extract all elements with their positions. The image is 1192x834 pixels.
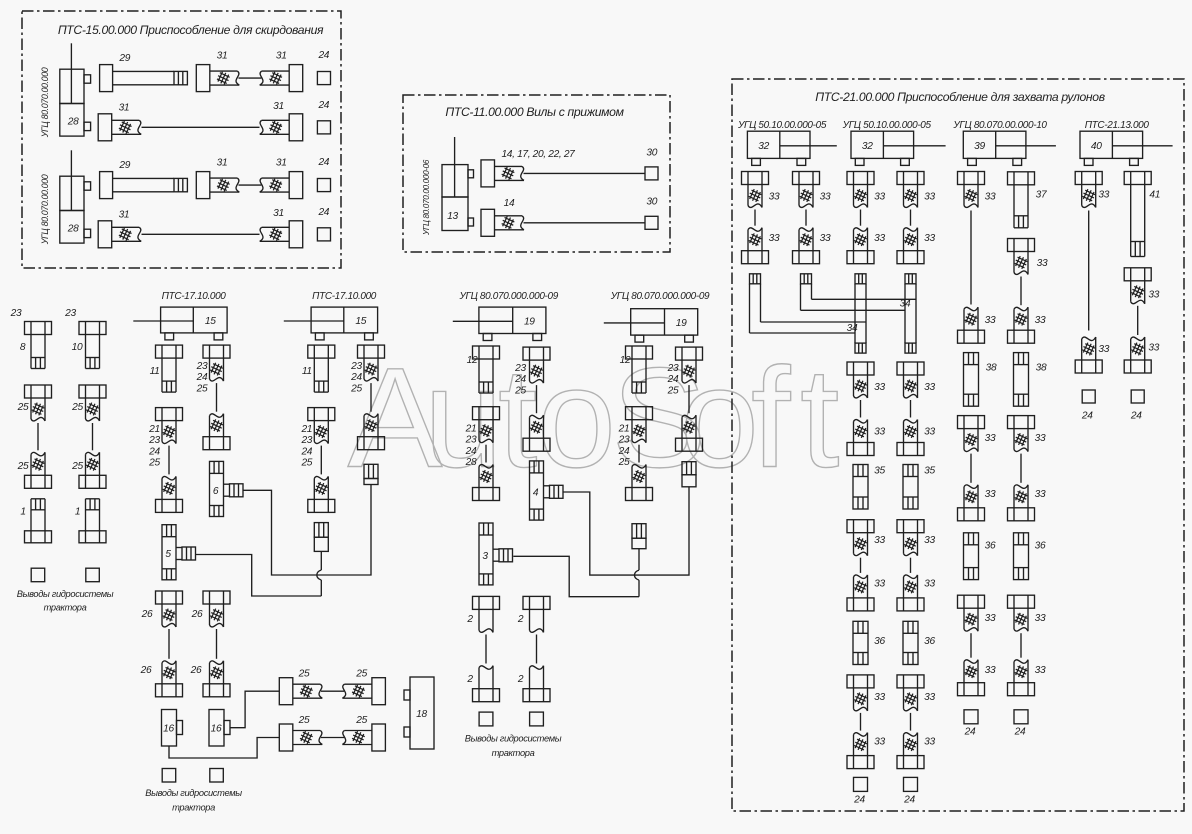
svg-text:15: 15 xyxy=(205,316,216,327)
svg-text:ПТС-21.13.000: ПТС-21.13.000 xyxy=(1085,120,1150,131)
svg-text:24: 24 xyxy=(514,374,526,385)
svg-text:25: 25 xyxy=(298,669,310,680)
svg-text:26: 26 xyxy=(141,609,153,620)
svg-text:23: 23 xyxy=(300,435,312,446)
svg-text:36: 36 xyxy=(924,636,935,647)
svg-text:31: 31 xyxy=(273,101,284,112)
svg-text:УГЦ 80.070.000.000-09: УГЦ 80.070.000.000-09 xyxy=(610,291,710,302)
svg-text:28: 28 xyxy=(465,457,477,468)
svg-text:33: 33 xyxy=(820,233,831,244)
svg-text:24: 24 xyxy=(667,374,679,385)
svg-text:33: 33 xyxy=(874,427,885,438)
svg-text:10: 10 xyxy=(72,342,83,353)
svg-text:15: 15 xyxy=(355,316,366,327)
svg-text:25: 25 xyxy=(17,461,29,472)
svg-text:33: 33 xyxy=(924,579,935,590)
svg-text:33: 33 xyxy=(874,692,885,703)
svg-text:23: 23 xyxy=(514,363,526,374)
svg-text:23: 23 xyxy=(148,435,160,446)
svg-text:25: 25 xyxy=(514,385,526,396)
svg-text:16: 16 xyxy=(163,724,174,735)
svg-text:4: 4 xyxy=(533,487,539,498)
svg-text:26: 26 xyxy=(190,665,202,676)
svg-text:33: 33 xyxy=(1098,190,1109,201)
svg-text:24: 24 xyxy=(317,207,329,218)
svg-text:33: 33 xyxy=(924,382,935,393)
svg-text:34: 34 xyxy=(847,323,858,334)
svg-text:5: 5 xyxy=(165,549,171,560)
svg-text:33: 33 xyxy=(1148,290,1159,301)
svg-text:24: 24 xyxy=(1081,411,1093,422)
svg-text:28: 28 xyxy=(67,223,79,234)
svg-text:6: 6 xyxy=(213,486,219,497)
svg-text:25: 25 xyxy=(300,458,312,469)
svg-text:24: 24 xyxy=(1130,411,1142,422)
svg-text:33: 33 xyxy=(874,535,885,546)
svg-text:33: 33 xyxy=(820,192,831,203)
svg-text:25: 25 xyxy=(667,385,679,396)
svg-text:1: 1 xyxy=(75,507,80,518)
svg-text:23: 23 xyxy=(10,308,22,319)
svg-text:33: 33 xyxy=(1035,315,1046,326)
svg-text:31: 31 xyxy=(276,51,287,62)
svg-text:39: 39 xyxy=(974,141,985,152)
svg-text:33: 33 xyxy=(924,192,935,203)
svg-text:УГЦ 50.10.00.000-05: УГЦ 50.10.00.000-05 xyxy=(737,120,827,131)
svg-text:35: 35 xyxy=(874,466,885,477)
svg-text:33: 33 xyxy=(985,433,996,444)
svg-text:16: 16 xyxy=(211,724,222,735)
svg-text:38: 38 xyxy=(1036,363,1047,374)
svg-text:33: 33 xyxy=(1035,433,1046,444)
svg-text:23: 23 xyxy=(196,361,208,372)
svg-text:23: 23 xyxy=(618,435,630,446)
svg-text:33: 33 xyxy=(924,427,935,438)
svg-text:36: 36 xyxy=(1035,541,1046,552)
svg-text:33: 33 xyxy=(1035,489,1046,500)
svg-text:13: 13 xyxy=(447,211,458,222)
svg-text:23: 23 xyxy=(465,435,477,446)
svg-text:36: 36 xyxy=(874,636,885,647)
svg-text:28: 28 xyxy=(67,116,79,127)
svg-text:8: 8 xyxy=(20,342,26,353)
svg-text:Выводы гидросистемы: Выводы гидросистемы xyxy=(145,788,242,798)
svg-text:14: 14 xyxy=(504,198,515,209)
svg-text:УГЦ 80.070.00.000-06: УГЦ 80.070.00.000-06 xyxy=(422,159,431,236)
svg-text:УГЦ 80.070.00.000: УГЦ 80.070.00.000 xyxy=(40,174,50,245)
svg-text:трактора: трактора xyxy=(172,803,215,813)
svg-text:33: 33 xyxy=(874,382,885,393)
svg-text:33: 33 xyxy=(1037,258,1048,269)
svg-text:11: 11 xyxy=(150,366,160,377)
svg-text:26: 26 xyxy=(140,665,152,676)
svg-text:ПТС-17.10.000: ПТС-17.10.000 xyxy=(312,291,377,302)
svg-text:AutoSoft: AutoSoft xyxy=(348,339,840,498)
svg-text:33: 33 xyxy=(1035,665,1046,676)
svg-text:40: 40 xyxy=(1091,141,1102,152)
svg-text:31: 31 xyxy=(217,51,228,62)
svg-text:24: 24 xyxy=(465,446,477,457)
svg-text:33: 33 xyxy=(769,192,780,203)
svg-text:26: 26 xyxy=(191,609,203,620)
svg-text:трактора: трактора xyxy=(44,603,87,613)
svg-text:35: 35 xyxy=(924,466,935,477)
svg-text:ПТС-17.10.000: ПТС-17.10.000 xyxy=(162,291,227,302)
svg-text:31: 31 xyxy=(217,158,228,169)
svg-text:29: 29 xyxy=(118,160,130,171)
svg-text:33: 33 xyxy=(985,489,996,500)
svg-text:25: 25 xyxy=(298,715,310,726)
svg-text:1: 1 xyxy=(20,507,25,518)
svg-text:31: 31 xyxy=(119,210,130,221)
svg-text:2: 2 xyxy=(517,674,524,685)
svg-text:УГЦ 50.10.00.000-05: УГЦ 50.10.00.000-05 xyxy=(842,120,932,131)
svg-text:12: 12 xyxy=(467,355,478,366)
svg-text:30: 30 xyxy=(646,197,657,208)
svg-text:21: 21 xyxy=(148,424,160,435)
svg-text:33: 33 xyxy=(924,737,935,748)
svg-text:19: 19 xyxy=(524,316,535,327)
svg-text:36: 36 xyxy=(985,541,996,552)
svg-text:24: 24 xyxy=(1014,727,1026,738)
svg-text:24: 24 xyxy=(317,157,329,168)
svg-text:31: 31 xyxy=(119,103,130,114)
svg-text:24: 24 xyxy=(618,446,630,457)
svg-text:25: 25 xyxy=(17,402,29,413)
svg-text:33: 33 xyxy=(874,737,885,748)
svg-text:24: 24 xyxy=(853,795,865,806)
svg-text:25: 25 xyxy=(350,383,362,394)
svg-text:33: 33 xyxy=(985,613,996,624)
svg-text:УГЦ 80.070.00.000-10: УГЦ 80.070.00.000-10 xyxy=(952,120,1047,131)
svg-text:23: 23 xyxy=(64,308,76,319)
svg-text:33: 33 xyxy=(924,233,935,244)
svg-text:трактора: трактора xyxy=(492,748,535,758)
svg-text:2: 2 xyxy=(517,614,524,625)
svg-text:24: 24 xyxy=(196,372,208,383)
svg-text:21: 21 xyxy=(300,424,312,435)
svg-text:33: 33 xyxy=(874,192,885,203)
svg-text:32: 32 xyxy=(862,141,873,152)
svg-text:21: 21 xyxy=(465,424,477,435)
svg-text:33: 33 xyxy=(924,692,935,703)
svg-text:37: 37 xyxy=(1036,190,1047,201)
svg-text:23: 23 xyxy=(350,361,362,372)
svg-text:ПТС-15.00.000 Приспособление д: ПТС-15.00.000 Приспособление для скирдов… xyxy=(58,23,324,37)
svg-text:Выводы гидросистемы: Выводы гидросистемы xyxy=(17,589,114,599)
svg-text:33: 33 xyxy=(985,665,996,676)
svg-text:14, 17, 20, 22, 27: 14, 17, 20, 22, 27 xyxy=(501,149,575,160)
svg-text:24: 24 xyxy=(964,727,976,738)
svg-text:Выводы гидросистемы: Выводы гидросистемы xyxy=(465,734,562,744)
svg-text:25: 25 xyxy=(196,383,208,394)
svg-text:2: 2 xyxy=(466,614,473,625)
svg-text:3: 3 xyxy=(482,551,488,562)
svg-text:24: 24 xyxy=(350,372,362,383)
svg-text:11: 11 xyxy=(302,366,312,377)
svg-text:ПТС-11.00.000 Вилы с прижимом: ПТС-11.00.000 Вилы с прижимом xyxy=(445,105,624,119)
svg-text:24: 24 xyxy=(300,446,312,457)
svg-text:31: 31 xyxy=(276,158,287,169)
svg-text:25: 25 xyxy=(71,461,83,472)
svg-text:25: 25 xyxy=(618,457,630,468)
svg-text:18: 18 xyxy=(416,709,427,720)
svg-text:31: 31 xyxy=(273,208,284,219)
svg-text:33: 33 xyxy=(1148,343,1159,354)
svg-text:19: 19 xyxy=(676,318,687,329)
svg-text:25: 25 xyxy=(71,402,83,413)
svg-text:УГЦ 80.070.000.000-09: УГЦ 80.070.000.000-09 xyxy=(458,291,558,302)
svg-text:25: 25 xyxy=(148,458,160,469)
svg-text:33: 33 xyxy=(874,579,885,590)
svg-text:24: 24 xyxy=(317,50,329,61)
svg-text:24: 24 xyxy=(148,446,160,457)
svg-text:41: 41 xyxy=(1149,190,1160,201)
svg-text:2: 2 xyxy=(466,674,473,685)
svg-text:33: 33 xyxy=(985,192,996,203)
svg-text:33: 33 xyxy=(1098,344,1109,355)
svg-text:24: 24 xyxy=(317,100,329,111)
svg-text:38: 38 xyxy=(986,363,997,374)
svg-text:УГЦ 80.070.00.000: УГЦ 80.070.00.000 xyxy=(40,67,50,138)
svg-text:12: 12 xyxy=(620,355,631,366)
svg-text:24: 24 xyxy=(903,795,915,806)
svg-text:34: 34 xyxy=(900,299,911,310)
svg-text:ПТС-21.00.000 Приспособление д: ПТС-21.00.000 Приспособление для захвата… xyxy=(815,90,1104,104)
svg-text:33: 33 xyxy=(924,535,935,546)
svg-text:33: 33 xyxy=(874,233,885,244)
svg-text:30: 30 xyxy=(646,148,657,159)
svg-text:33: 33 xyxy=(985,315,996,326)
svg-text:25: 25 xyxy=(355,715,367,726)
svg-text:32: 32 xyxy=(758,141,769,152)
svg-text:33: 33 xyxy=(1035,613,1046,624)
svg-text:23: 23 xyxy=(667,363,679,374)
svg-text:21: 21 xyxy=(618,424,630,435)
svg-text:29: 29 xyxy=(118,53,130,64)
svg-text:25: 25 xyxy=(355,669,367,680)
svg-text:33: 33 xyxy=(769,233,780,244)
